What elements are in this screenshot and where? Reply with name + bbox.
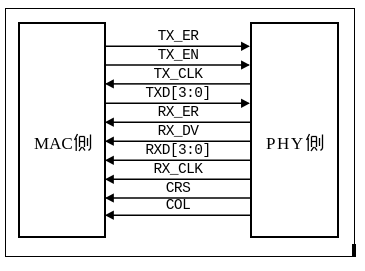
arrowhead RX_DV [107,138,114,145]
arrowhead TXD[3:0] [242,100,249,107]
PHY block label PHY侧 [266,133,324,154]
arrowhead TX_CLK [107,81,114,88]
label TX_CLK [106,69,250,81]
wire TX_CLK (PHY to MAC) [106,83,250,85]
wire RX_ER (PHY to MAC) [106,121,250,123]
wire CRS (PHY to MAC) [106,197,250,199]
wire COL (PHY to MAC) [106,214,250,216]
label TX_EN [106,50,250,62]
MAC block [18,22,106,238]
frame corner thick mark [352,244,356,257]
arrowhead COL [107,212,114,219]
label TXD[3:0] [106,88,250,100]
label RX_ER [106,107,250,119]
wire RX_CLK (PHY to MAC) [106,178,250,180]
label CRS [106,183,250,195]
MAC block label MAC侧 [34,133,92,154]
arrowhead RXD[3:0] [107,157,114,164]
label COL [106,200,250,212]
label TX_ER [106,31,250,43]
label RX_CLK [106,164,250,176]
wire TX_ER (MAC to PHY) [105,45,249,47]
arrowhead RX_ER [107,119,114,126]
wire RXD[3:0] (PHY to MAC) [106,159,250,161]
wire TXD[3:0] (MAC to PHY) [105,102,249,104]
PHY block [250,22,339,238]
wire TX_EN (MAC to PHY) [105,64,249,66]
arrowhead CRS [107,195,114,202]
arrowhead TX_EN [242,62,249,69]
arrowhead TX_ER [242,43,249,50]
label RXD[3:0] [106,145,250,157]
wire RX_DV (PHY to MAC) [106,140,250,142]
arrowhead RX_CLK [107,176,114,183]
label RX_DV [106,126,250,138]
